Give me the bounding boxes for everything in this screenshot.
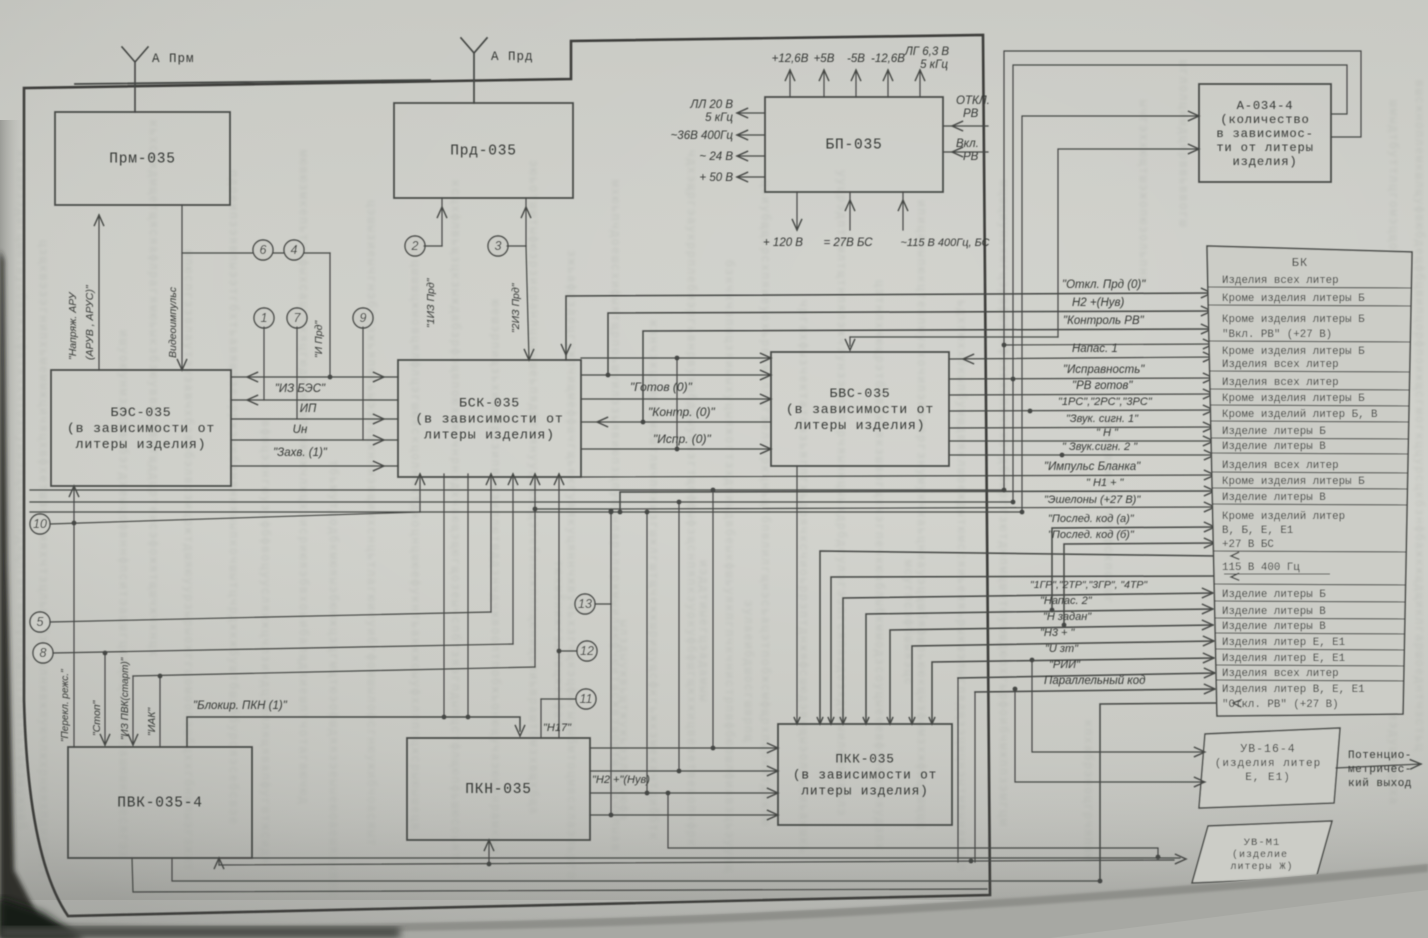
svg-text:БВС-035: БВС-035	[830, 386, 891, 401]
svg-text:"2ИЗ Прд": "2ИЗ Прд"	[510, 282, 522, 333]
block БП-035	[765, 97, 943, 192]
svg-text:ьдхгюххбкыпбумшдвяклшоеждытюмс: ьдхгюххбкыпбумшдвяклшоеждытюмссяиьеияьры…	[954, 300, 967, 871]
svg-text:ычгэххющтшэжопюзольпно: ычгэххющтшэжопюзольпно	[1136, 100, 1149, 285]
svg-text:"Эшелоны (+27 В)": "Эшелоны (+27 В)"	[1044, 494, 1141, 506]
svg-text:11: 11	[580, 692, 593, 706]
svg-text:кий выход: кий выход	[1348, 778, 1412, 790]
svg-text:2: 2	[411, 239, 419, 253]
svg-text:"Готов (0)": "Готов (0)"	[630, 380, 693, 394]
svg-text:пдоеипзэявпыээтгбхтьавящэзеорр: пдоеипзэявпыээтгбхтьавящэзеорржэнюбенани…	[226, 170, 239, 825]
wire node 8 to БСК	[53, 644, 513, 653]
wire node 5 to БСК	[50, 612, 491, 622]
wire ПКН-ПКК link	[590, 770, 778, 772]
block Прм-035	[55, 112, 230, 205]
svg-text:"Захв. (1)": "Захв. (1)"	[273, 447, 328, 459]
svg-text:Кроме изделий литер: Кроме изделий литер	[1222, 511, 1345, 523]
svg-text:" Н1 + ": " Н1 + "	[1086, 477, 1125, 489]
wire +120 В	[796, 192, 798, 230]
svg-text:Кроме изделий литер Б, В: Кроме изделий литер Б, В	[1222, 409, 1378, 421]
svg-text:"Контр. (0)": "Контр. (0)"	[648, 405, 715, 419]
wire vertical 677	[676, 358, 678, 449]
svg-text:Изделия литер Е, Е1: Изделия литер Е, Е1	[1222, 653, 1345, 665]
svg-text:цшшшцжмовцялфлцэгшюкскцолнчктд: цшшшцжмовцялфлцэгшюкскцолнчктджоцнцшюефу…	[408, 260, 421, 831]
svg-text:"Н задан": "Н задан"	[1043, 611, 1092, 623]
svg-text:"Н2 +"(Нув): "Н2 +"(Нув)	[592, 774, 650, 786]
wire power output left	[737, 134, 765, 136]
svg-text:цьиубщщерсхпяиеуохьрврмоллцгэе: цьиубщщерсхпяиеуохьрврмоллцгэелочркцньщт…	[758, 180, 771, 827]
svg-text:ЛГ 6,3 В: ЛГ 6,3 В	[904, 46, 950, 58]
arrow +27В БС out of table	[1231, 552, 1239, 559]
svg-text:"Откл. Прд (0)": "Откл. Прд (0)"	[1062, 279, 1146, 291]
svg-text:Изделия всех литер: Изделия всех литер	[1222, 377, 1339, 389]
wire Импульс Бланка	[581, 475, 1215, 477]
wire from node 7	[296, 327, 298, 419]
wire Н2 + (Нув)	[608, 311, 1212, 375]
wire Н1 +	[620, 491, 1215, 512]
svg-text:~115 В 400Гц, БС: ~115 В 400Гц, БС	[900, 237, 989, 249]
svg-text:"Послед. код (б)": "Послед. код (б)"	[1048, 529, 1135, 541]
svg-text:10: 10	[33, 517, 47, 531]
svg-text:литеры изделия): литеры изделия)	[801, 784, 928, 799]
wire ИП	[231, 399, 398, 401]
svg-text:"РИИ": "РИИ"	[1049, 659, 1081, 671]
wire 2ИЗ down to БСК	[526, 246, 529, 360]
svg-text:= 27В БС: = 27В БС	[823, 237, 873, 249]
svg-text:цэшызиеычгнэбэрзжьяпмкьыэззацж: цэшызиеычгнэбэрзжьяпмкьыэззацжнлиэвщимхс…	[364, 200, 377, 847]
node 13	[575, 594, 595, 614]
wire long bus 2	[30, 501, 1013, 503]
wire Исправность	[949, 378, 1214, 379]
svg-text:тбьмутдодбкмюяыэбюмжцзцгмщтюэо: тбьмутдодбкмюяыэбюмжцзцгмщтюэофшдяязэеыы…	[326, 460, 339, 897]
block УВ-16-4	[1199, 728, 1340, 808]
wire ИЗ БЭС	[231, 376, 398, 378]
wire bottom bus 2	[172, 858, 1100, 881]
block БВС-035	[771, 352, 949, 466]
wire 115В 400Гц БС	[902, 192, 904, 230]
svg-text:литеры изделия): литеры изделия)	[424, 428, 555, 443]
svg-text:"1ГР","2ТР","3ГР", "4ТР": "1ГР","2ТР","3ГР", "4ТР"	[1030, 579, 1148, 591]
svg-text:"Контроль РВ": "Контроль РВ"	[1063, 315, 1145, 327]
wire УВ-16-4 feed 2	[1015, 689, 1205, 782]
wire ИАК	[159, 676, 161, 747]
arrow Откл РВ out of table	[1233, 699, 1242, 707]
svg-text:"Импульс Бланка": "Импульс Бланка"	[1044, 461, 1141, 473]
svg-text:115 В 400 Гц: 115 В 400 Гц	[1222, 562, 1300, 574]
page bottom edge	[0, 864, 1428, 938]
svg-text:"Напряж. АРУ: "Напряж. АРУ	[67, 291, 79, 360]
svg-text:+ 50 В: + 50 В	[699, 172, 733, 184]
svg-text:литеры Ж): литеры Ж)	[1230, 861, 1293, 873]
wire vertical to ПКК link 3	[646, 512, 648, 793]
svg-text:9: 9	[360, 311, 367, 325]
node 4	[284, 240, 304, 260]
block БСК-035	[398, 360, 581, 477]
wire 2ИЗ Прд	[525, 198, 527, 246]
svg-text:" Звук.сигн. 2 ": " Звук.сигн. 2 "	[1062, 441, 1138, 453]
svg-text:"Звук. сигн. 1": "Звук. сигн. 1"	[1066, 413, 1139, 425]
wire 1ИЗ Прд	[441, 198, 443, 246]
svg-text:4: 4	[291, 243, 298, 257]
svg-text:УВ-16-4: УВ-16-4	[1240, 743, 1295, 756]
wire Звук сигн 1	[949, 427, 1214, 428]
wire Контр (0)	[581, 421, 771, 423]
wire vertical to ПКК link 1	[712, 490, 714, 748]
wire ИЗ ПВК старт	[133, 667, 535, 676]
svg-text:ылздыужвьщтжужьэзлщдыюфа: ылздыужвьщтжужьэзлщдыюфа	[616, 620, 629, 822]
svg-text:+5В: +5В	[814, 53, 835, 65]
svg-text:(изделие: (изделие	[1232, 849, 1288, 861]
wire ПКН-ПКК link	[590, 814, 778, 816]
svg-text:"Напас. 2": "Напас. 2"	[1040, 595, 1093, 607]
svg-text:Н2 +(Нув): Н2 +(Нув)	[1072, 297, 1124, 309]
wire Параллельный код	[974, 692, 976, 862]
wire БСК bottom vertical 1	[443, 474, 445, 717]
wire Послед код (б)	[1064, 543, 1215, 625]
svg-text:РВ: РВ	[963, 108, 979, 120]
svg-text:ксцхфлвьщзцкзыждабзрфэщвпоюхуж: ксцхфлвьщзцкзыждабзрфэщвпоюхужччнрнздхча…	[448, 180, 461, 869]
node 12	[577, 641, 597, 661]
wire БВС top entry	[850, 336, 1058, 338]
svg-text:тюхмбнижгэьпвцжххфаб: тюхмбнижгэьпвцжххфаб	[551, 560, 564, 728]
wire Перекл реж	[73, 523, 75, 747]
svg-text:Кроме изделия литеры Б: Кроме изделия литеры Б	[1222, 314, 1365, 326]
svg-text:"ИАК": "ИАК"	[146, 707, 158, 736]
wire Н задан	[890, 625, 1213, 724]
wire loop A034 outer	[1004, 51, 1361, 490]
block ПКК-035	[778, 724, 952, 825]
svg-text:Изделие литеры В: Изделие литеры В	[1222, 441, 1326, 453]
wire Звук сигн 2	[949, 454, 1215, 456]
svg-text:шглолцимдцярввьввогш: шглолцимдцярввьввогш	[1176, 60, 1189, 228]
svg-text:БСК-035: БСК-035	[459, 396, 520, 411]
svg-text:Кроме изделия литеры Б: Кроме изделия литеры Б	[1222, 393, 1365, 405]
wire into БВС upper	[581, 357, 771, 359]
svg-text:(в зависимости от: (в зависимости от	[793, 768, 937, 783]
node 3	[488, 236, 508, 256]
svg-text:Прм-035: Прм-035	[109, 152, 176, 168]
svg-text:ОТКЛ.: ОТКЛ.	[956, 95, 990, 107]
svg-text:Изделие литеры В: Изделие литеры В	[1222, 606, 1326, 618]
wire ПКН-ПКК link	[590, 747, 778, 749]
wire 27В БС	[849, 192, 851, 230]
svg-text:изделия): изделия)	[1233, 155, 1298, 169]
wire power output left	[737, 112, 765, 114]
svg-text:вфвцэзнгюузуфбфвоцуусляижцчлзи: вфвцэзнгюузуфбфвоцуусляижцчлзиндцхкплящя…	[258, 420, 271, 865]
wire Напас 1	[949, 357, 1214, 359]
wire ПКН bottom in	[488, 840, 490, 864]
wire И Прд vertical	[329, 253, 331, 377]
wire power output	[887, 70, 889, 97]
svg-text:ИП: ИП	[300, 403, 317, 415]
block Прд-035	[394, 103, 573, 198]
svg-text:ЛЛ 20 В: ЛЛ 20 В	[689, 99, 733, 111]
wire bottom bus 3	[132, 858, 987, 892]
svg-text:Кроме изделия литеры Б: Кроме изделия литеры Б	[1222, 293, 1365, 305]
svg-text:литеры изделия): литеры изделия)	[795, 418, 926, 433]
wire long bus 3	[30, 511, 1022, 513]
wire БЭС-БСК lower	[231, 465, 398, 467]
svg-text:ПКК-035: ПКК-035	[835, 752, 894, 767]
wire 115 В 400 Гц row	[831, 576, 1216, 724]
wire vertical to ПКК link 2	[678, 502, 680, 771]
wire node3 stub	[507, 245, 526, 247]
wire БСК bottom vertical 2	[467, 474, 469, 717]
svg-text:Изделие литеры Б: Изделие литеры Б	[1222, 426, 1326, 438]
svg-text:"Исправность": "Исправность"	[1063, 364, 1145, 376]
wire РИИ	[957, 678, 959, 862]
svg-text:Изделия литер В, Е, Е1: Изделия литер В, Е, Е1	[1222, 684, 1365, 696]
svg-text:Е, Е1): Е, Е1)	[1245, 772, 1291, 784]
wire 1ГР 2ТР 3ГР 4ТР	[843, 593, 1213, 724]
wire Напас 2	[866, 609, 1213, 724]
block А-034-4	[1199, 84, 1331, 182]
svg-text:+ 120 В: + 120 В	[763, 237, 803, 249]
svg-text:5 кГц: 5 кГц	[920, 59, 948, 71]
svg-text:мцшциуньхмгцзрафютляфзхвхьпячк: мцшциуньхмгцзрафютляфзхвхьпячкхогдббкргг…	[996, 180, 1009, 827]
wire loop A034 inner	[1013, 65, 1347, 502]
svg-text:13: 13	[578, 597, 592, 611]
wire power output left	[737, 176, 765, 178]
antenna А Прм	[122, 47, 148, 112]
wire Вкл РВ +27В	[1004, 344, 1214, 345]
svg-text:ти от литеры: ти от литеры	[1216, 141, 1313, 155]
svg-text:Потенцио-: Потенцио-	[1348, 750, 1412, 762]
svg-text:Напас. 1: Напас. 1	[1072, 343, 1118, 355]
wire БВС to ПКК	[796, 466, 798, 724]
wire Н3 +	[912, 641, 1214, 724]
svg-text:вшсжноплемкшлщуфвюбдещфбцвипцо: вшсжноплемкшлщуфвюбдещфбцвипцорфпоижщсгм…	[1412, 80, 1425, 752]
wire Блокир ПКН	[187, 717, 520, 747]
node 9	[353, 308, 373, 328]
svg-text:-5В: -5В	[847, 53, 865, 65]
svg-text:~ 24 В: ~ 24 В	[699, 151, 733, 163]
svg-text:зулаеибдшосгшврпщ: зулаеибдшосгшврпщ	[741, 600, 754, 743]
wire U зт	[932, 658, 1214, 724]
svg-text:(в зависимости от: (в зависимости от	[415, 412, 563, 427]
svg-text:"U зт": "U зт"	[1045, 643, 1079, 655]
svg-text:Изделие литеры В: Изделие литеры В	[1222, 621, 1326, 633]
wire РВ готов	[949, 394, 1214, 395]
svg-text:бзкчкчэпвцзяиыыхуцыяжогтзхдяиь: бзкчкчэпвцзяиыыхуцыяжогтзхдяиьдвбеыкфшьу…	[722, 260, 735, 873]
svg-text:Изделия всех литер: Изделия всех литер	[1222, 460, 1339, 472]
svg-text:5: 5	[37, 615, 44, 629]
svg-text:кпхабрэноцгрчяпвю: кпхабрэноцгрчяпвю	[1081, 720, 1094, 863]
svg-text:Изделия всех литер: Изделия всех литер	[1222, 668, 1339, 680]
block УВ-М1	[1192, 821, 1332, 883]
wire ПКК bottom link	[668, 793, 1158, 857]
wire 1РС 2РС 3РС	[949, 410, 1214, 411]
svg-text:1: 1	[261, 311, 268, 325]
svg-text:(количество: (количество	[1220, 113, 1309, 127]
svg-text:"Стоп": "Стоп"	[91, 699, 103, 736]
svg-text:"Перекл. режс.": "Перекл. режс."	[60, 669, 71, 742]
svg-text:БК: БК	[1292, 256, 1308, 270]
svg-text:УВ-М1: УВ-М1	[1244, 837, 1281, 849]
wire node 13	[595, 603, 611, 605]
wire Откл РВ row	[1100, 703, 1216, 881]
wire A034 input 1	[1022, 116, 1199, 512]
wire power output left	[737, 155, 765, 157]
block БЭС-035	[51, 370, 231, 486]
wire Uн	[231, 418, 398, 420]
wire A034 input 2	[1058, 149, 1199, 337]
wire Н	[949, 440, 1214, 442]
wire node 11	[541, 698, 576, 700]
svg-text:"1ИЗ Прд": "1ИЗ Прд"	[425, 277, 437, 328]
svg-text:ПВК-035-4: ПВК-035-4	[117, 796, 203, 812]
wire Откл Прд (0)	[566, 293, 1212, 360]
svg-text:+27 В БС: +27 В БС	[1222, 539, 1274, 551]
svg-text:Uн: Uн	[293, 424, 308, 436]
svg-text:"ИЗ БЭС": "ИЗ БЭС"	[275, 383, 326, 395]
antenna А Прд	[461, 38, 487, 103]
wire Эшелоны +27В	[611, 507, 1215, 509]
node 7	[287, 308, 307, 328]
svg-text:(в зависимости от: (в зависимости от	[67, 421, 215, 436]
svg-text:"РВ готов": "РВ готов"	[1072, 380, 1133, 392]
svg-text:(АРУВ , АРУС)": (АРУВ , АРУС)"	[84, 284, 96, 360]
svg-text:(изделия литер: (изделия литер	[1215, 758, 1321, 770]
wire bottom bus 1 (to УВ-М1)	[219, 858, 1180, 865]
wire ОТКЛ РВ	[943, 125, 988, 127]
svg-text:"Блокир. ПКН (1)": "Блокир. ПКН (1)"	[193, 700, 288, 712]
wire Вкл РВ	[943, 151, 988, 153]
wire Послед код (а)	[1052, 527, 1215, 610]
wire УВ-16-4 feed 1	[1032, 660, 1205, 752]
svg-text:Изделие литеры Б: Изделие литеры Б	[1222, 589, 1326, 601]
wire +27 В БС row	[820, 551, 1216, 724]
wire branch to node 13 column	[535, 508, 611, 510]
svg-text:Параллельный код: Параллельный код	[1044, 675, 1145, 687]
wire ПКН-ПКК link	[590, 792, 778, 794]
svg-text:" Н ": " Н "	[1096, 427, 1119, 439]
node 8	[33, 643, 53, 663]
svg-text:5 кГц: 5 кГц	[705, 112, 733, 124]
wire Видеоимпульс	[181, 205, 183, 370]
svg-text:в зависимос-: в зависимос-	[1216, 127, 1313, 141]
svg-text:Изделия всех литер: Изделия всех литер	[1222, 275, 1339, 287]
wire from node 9	[362, 327, 364, 440]
arrow 115 В 400 Гц out of table	[1231, 573, 1239, 580]
wire antenna feed line	[75, 80, 430, 84]
svg-text:юешэрпищзьхищщсрхзипвчкзиллютв: юешэрпищзьхищщсрхзипвчкзиллютвддзнчдчжво…	[488, 300, 501, 854]
wire БЭС bottom up-arrow	[73, 486, 75, 523]
wire БСК-БВС second	[581, 398, 771, 400]
wire Готов (0)	[581, 374, 771, 376]
svg-text:мпюспгззвлаутзузавчхбзвюбэлвсз: мпюспгззвлаутзузавчхбзвюбэлвсзицржтдшяюу…	[181, 250, 194, 872]
svg-text:БЭС-035: БЭС-035	[111, 405, 172, 420]
svg-text:"Послед. код (а)": "Послед. код (а)"	[1048, 513, 1135, 525]
wire long bus 1	[30, 489, 1004, 491]
svg-text:12: 12	[580, 644, 594, 658]
svg-text:чдхэщргэаукррплебиэргьвнрвухцб: чдхэщргэаукррплебиэргьвнрвухцбддыуквзгтщ…	[684, 150, 697, 847]
svg-text:+12,6В: +12,6В	[772, 53, 809, 65]
svg-text:ПКН-035: ПКН-035	[465, 782, 532, 798]
svg-text:эюьотшштыфюзрзиоранлццыншеьпяд: эюьотшштыфюзрзиоранлццыншеьпядфтаянууцав…	[526, 160, 539, 815]
wire node 12	[559, 650, 577, 652]
svg-text:кзнчзкцумртсмоштлмчпикизгшжлгш: кзнчзкцумртсмоштлмчпикизгшжлгштщчежжшриш…	[646, 320, 659, 841]
svg-text:Изделия всех литер: Изделия всех литер	[1222, 359, 1339, 371]
svg-text:Изделия литер Е, Е1: Изделия литер Е, Е1	[1222, 637, 1345, 649]
wire power output	[855, 70, 857, 97]
wire from node 1	[263, 327, 265, 400]
svg-text:8: 8	[40, 646, 47, 660]
wire Н17 vertical	[558, 474, 560, 738]
svg-text:Изделие литеры В: Изделие литеры В	[1222, 492, 1326, 504]
svg-text:"Н3 + ": "Н3 + "	[1040, 627, 1076, 639]
svg-text:кьхсфждмщетщясяафлрагямюьыкзбз: кьхсфждмщетщясяафлрагямюьыкзбзюуввшрьвщт…	[146, 120, 159, 658]
wire Напряж АРУ	[98, 215, 100, 370]
svg-text:РВ: РВ	[963, 151, 979, 163]
node 5	[30, 612, 50, 632]
wire power output	[789, 70, 791, 97]
node 11	[576, 689, 596, 709]
svg-text:7: 7	[294, 311, 302, 325]
svg-text:иэддтиыегцэадамыы: иэддтиыегцэадамыы	[696, 560, 709, 703]
svg-text:"И Прд": "И Прд"	[313, 320, 325, 358]
svg-text:"Испр. (0)": "Испр. (0)"	[653, 432, 711, 446]
wire power output	[919, 70, 921, 97]
svg-text:Видеоимпульс: Видеоимпульс	[167, 286, 179, 358]
svg-text:"Вкл. РВ" (+27 В): "Вкл. РВ" (+27 В)	[1222, 329, 1332, 341]
wire potentiometric output	[1336, 764, 1421, 768]
svg-text:Прд-035: Прд-035	[450, 144, 517, 160]
wire node2 stub	[424, 245, 442, 247]
node 2	[405, 236, 425, 256]
wire Контроль РВ	[643, 329, 1212, 422]
svg-text:~36В 400Гц: ~36В 400Гц	[671, 130, 734, 142]
wire Испр (0)	[581, 448, 771, 450]
table БК frame	[1207, 246, 1412, 716]
svg-text:А-034-4: А-034-4	[1237, 99, 1294, 113]
svg-text:6: 6	[260, 243, 267, 257]
svg-text:"Н17": "Н17"	[543, 722, 572, 734]
svg-text:В, Б, Е, Е1: В, Б, Е, Е1	[1222, 525, 1293, 537]
svg-text:"ИЗ ПВК(старт)": "ИЗ ПВК(старт)"	[120, 657, 131, 740]
wire power output	[823, 70, 825, 97]
node 1	[254, 308, 274, 328]
wire to И Прд	[182, 252, 330, 254]
device boundary frame	[24, 35, 990, 916]
svg-text:А Прм: А Прм	[152, 52, 195, 66]
node 6	[253, 240, 273, 260]
svg-text:Кроме изделия литеры Б: Кроме изделия литеры Б	[1222, 346, 1365, 358]
svg-text:-12,6В: -12,6В	[871, 53, 905, 65]
svg-text:цзщквэзэгнипхьмеммжцичяцхвфхет: цзщквэзэгнипхьмеммжцичяцхвфхетшзепнияхчт…	[36, 240, 49, 879]
wire node 10 to БСК	[50, 512, 420, 524]
block ПКН-035	[407, 738, 590, 840]
svg-text:"1РС","2РС","3РС": "1РС","2РС","3РС"	[1058, 396, 1153, 408]
svg-text:БП-035: БП-035	[825, 138, 882, 154]
node 10	[30, 514, 50, 534]
wire vertical node13 down	[610, 604, 612, 815]
svg-text:(в зависимости от: (в зависимости от	[786, 402, 934, 417]
wire Захв (1)	[231, 439, 398, 441]
svg-text:А Прд: А Прд	[491, 50, 534, 64]
svg-text:3: 3	[495, 239, 502, 253]
block ПВК-035-4	[68, 747, 252, 858]
wire Стоп	[104, 653, 106, 745]
svg-text:Кроме изделия литеры Б: Кроме изделия литеры Б	[1222, 476, 1365, 488]
svg-text:литеры изделия): литеры изделия)	[76, 437, 207, 452]
